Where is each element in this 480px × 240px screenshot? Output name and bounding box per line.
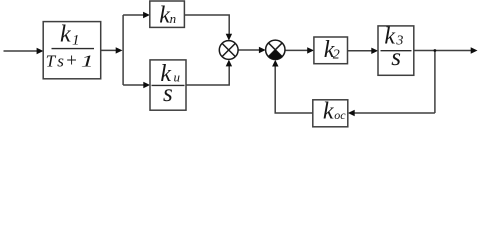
svg-text:T: T xyxy=(46,51,57,70)
wire J2 to k2 xyxy=(285,49,309,51)
summing junction J1 xyxy=(219,41,238,60)
svg-text:s: s xyxy=(163,80,173,107)
arrowhead into koc xyxy=(348,110,355,116)
arrowhead into kn xyxy=(143,12,150,18)
svg-text:s: s xyxy=(391,44,401,71)
svg-text:2: 2 xyxy=(333,48,340,63)
svg-text:n: n xyxy=(170,11,177,26)
arrowhead into k2 xyxy=(307,47,314,53)
arrowhead output xyxy=(471,47,478,53)
fraction bar block1 xyxy=(52,48,95,50)
wire branch vertical xyxy=(122,15,124,85)
wire feedback right horizontal xyxy=(354,112,435,114)
block k2 xyxy=(314,37,348,64)
arrowhead into k3 xyxy=(371,48,378,54)
svg-text:1: 1 xyxy=(72,32,80,48)
wire koc to J2 xyxy=(275,65,313,113)
svg-text:s: s xyxy=(57,51,64,70)
fraction bar k3/s xyxy=(381,50,412,52)
wire branch to kn xyxy=(123,14,144,16)
summing junction J2 (bottom sector filled) xyxy=(266,40,285,59)
wire branch to ku xyxy=(123,84,145,86)
arrowhead into J2 left xyxy=(259,47,266,53)
wire k2 to k3 xyxy=(348,50,373,52)
svg-text:k: k xyxy=(323,98,334,124)
svg-text:oc: oc xyxy=(334,108,346,122)
block kn xyxy=(150,1,185,27)
svg-text:1: 1 xyxy=(81,51,94,71)
wire kn to junction J1 xyxy=(184,15,229,36)
wire block1 to branch xyxy=(101,49,117,51)
fraction bar ku/s xyxy=(152,84,185,86)
wire feedback tap vertical xyxy=(434,51,436,114)
wire J1 to J2 xyxy=(238,49,260,51)
svg-text:k: k xyxy=(60,22,71,48)
wire input xyxy=(4,50,39,52)
arrowhead into J1 top xyxy=(226,34,232,41)
arrowhead into branch point xyxy=(116,47,123,53)
block koc xyxy=(313,100,348,127)
junction dot on output wire xyxy=(434,49,437,52)
arrowhead into J1 bottom xyxy=(226,60,232,67)
arrowhead into block1 xyxy=(37,48,44,54)
block G1 k1/(Ts+1) xyxy=(43,22,100,79)
svg-text:+: + xyxy=(65,50,78,71)
svg-text:u: u xyxy=(174,69,181,84)
block ku/s xyxy=(150,60,186,110)
wire ku to junction J1 xyxy=(186,65,229,86)
arrowhead into J2 bottom xyxy=(272,60,278,67)
arrowhead into ku xyxy=(143,82,150,88)
wire output xyxy=(414,50,472,52)
block k3/s xyxy=(378,26,414,75)
